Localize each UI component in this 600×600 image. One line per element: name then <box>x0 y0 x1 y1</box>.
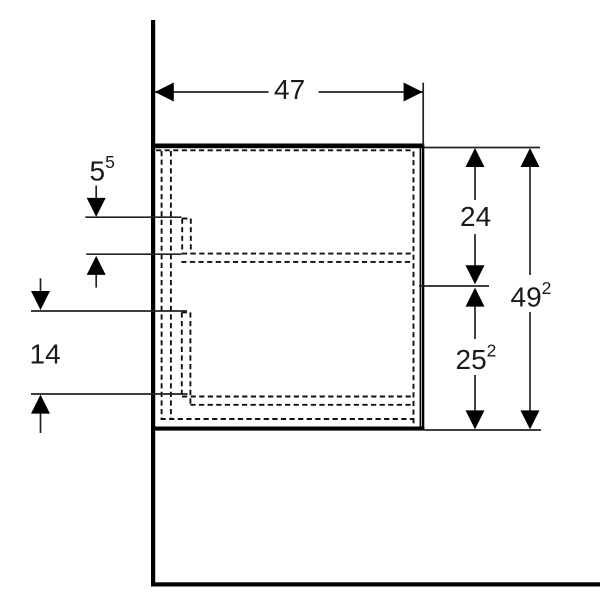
svg-text:14: 14 <box>30 339 61 370</box>
svg-text:24: 24 <box>460 201 491 232</box>
svg-text:47: 47 <box>274 74 305 105</box>
